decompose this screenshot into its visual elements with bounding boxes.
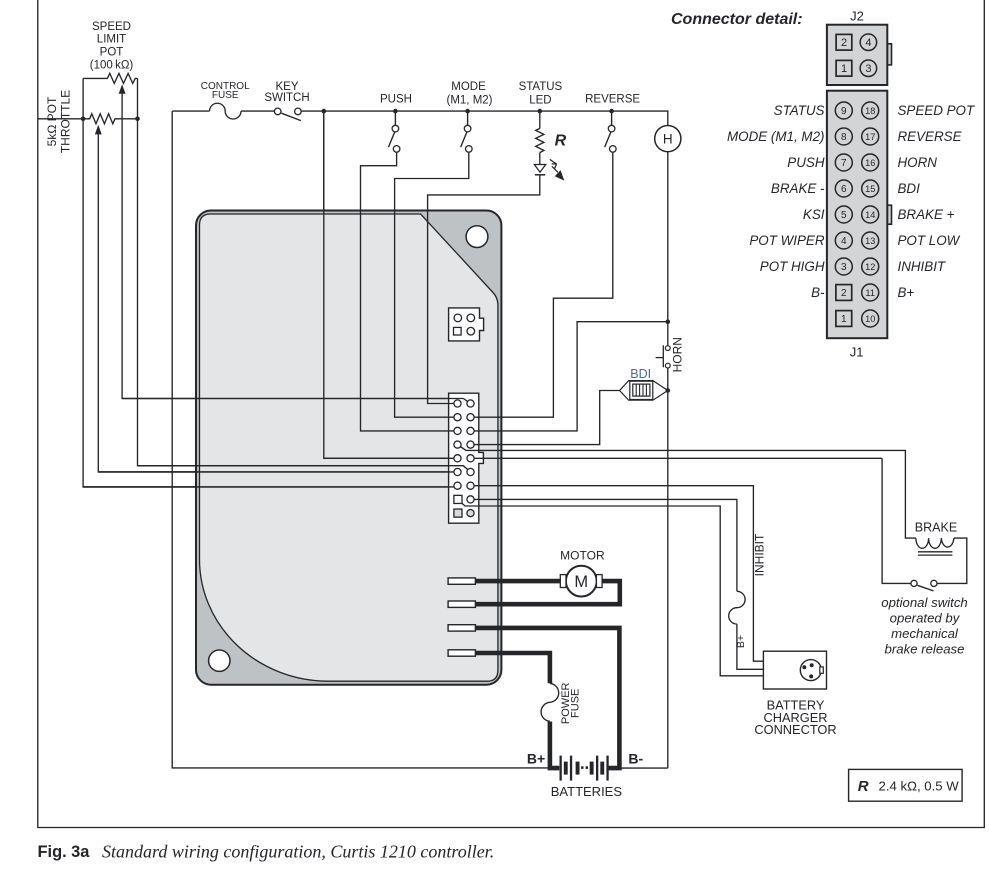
- controller body (light face with beveled corners): [200, 214, 498, 681]
- resistor SPEED LIMIT POT 100k: [83, 73, 137, 83]
- header pin 15: [467, 441, 474, 448]
- LED status (diode): [534, 165, 545, 175]
- svg-text:MODE: MODE: [451, 81, 486, 93]
- wire POT HIGH over body: [83, 486, 457, 488]
- wire REVERSE (switch to pin 17): [471, 152, 613, 417]
- svg-text:mechanical: mechanical: [891, 626, 959, 641]
- switch KEY SWITCH: [274, 108, 301, 121]
- J1 pin 15: [862, 180, 879, 197]
- J1 pin 12: [862, 258, 879, 275]
- svg-text:POT HIGH: POT HIGH: [760, 259, 825, 274]
- svg-text:THROTTLE: THROTTLE: [59, 90, 73, 153]
- J1 pin 9: [835, 102, 852, 119]
- svg-text:POT LOW: POT LOW: [898, 233, 961, 248]
- node BDI junction: [666, 388, 671, 393]
- svg-text:SPEED POT: SPEED POT: [898, 103, 975, 118]
- svg-text:B-: B-: [628, 751, 643, 767]
- svg-text:INHIBIT: INHIBIT: [753, 533, 767, 576]
- svg-text:CONNECTOR: CONNECTOR: [754, 722, 836, 737]
- header pin 10: [467, 509, 474, 516]
- svg-text:16: 16: [865, 158, 875, 168]
- svg-text:REVERSE: REVERSE: [585, 94, 640, 106]
- svg-text:8: 8: [841, 132, 847, 143]
- wire BDI (pin 15 to BDI): [471, 391, 620, 445]
- header pin 16: [467, 427, 474, 434]
- pin 2 mate: [467, 314, 475, 322]
- header pin 14: [467, 455, 474, 462]
- svg-text:BRAKE +: BRAKE +: [898, 207, 955, 222]
- svg-text:BDI: BDI: [898, 181, 921, 196]
- J2 pin 3: [860, 60, 877, 77]
- header pin 13: [467, 468, 474, 475]
- svg-text:SPEED: SPEED: [92, 21, 131, 33]
- J2 pin 1: [836, 60, 852, 76]
- J1 pin 2 (square): [836, 285, 852, 301]
- wire stub to throttle low rail: [38, 118, 83, 120]
- pushbutton HORN: [656, 345, 671, 368]
- header pin 5: [454, 455, 461, 462]
- legend R value box: [849, 769, 963, 801]
- wire rail to key switch: [241, 110, 274, 112]
- cable B+ to power fuse: [475, 653, 550, 683]
- svg-text:HORN: HORN: [898, 155, 938, 170]
- switch optional brake release: [911, 580, 937, 591]
- switch REVERSE: [605, 111, 616, 152]
- J1 pin 6: [835, 180, 852, 197]
- resistor 5k POT THROTTLE: [83, 114, 137, 124]
- terminal lug B-: [448, 625, 475, 631]
- svg-text:4: 4: [841, 236, 847, 247]
- svg-text:KSI: KSI: [803, 207, 825, 222]
- wire horn vertical upper: [667, 152, 669, 346]
- J2 pin 2: [836, 34, 852, 50]
- J1 pin 14: [862, 206, 879, 223]
- wire KSI (key switch to pin 5): [324, 111, 458, 458]
- node PUSH junction: [393, 109, 398, 114]
- svg-text:3: 3: [841, 262, 847, 273]
- svg-text:BRAKE: BRAKE: [915, 520, 957, 534]
- wire B+ to charger upper part: [471, 499, 737, 591]
- BDI indicator: [620, 381, 668, 401]
- wire top rail segment left: [172, 110, 209, 112]
- J1 pin 4: [835, 232, 852, 249]
- svg-text:5kΩ POT: 5kΩ POT: [45, 96, 59, 146]
- svg-text:operated by: operated by: [890, 611, 961, 626]
- svg-text:2.4 kΩ, 0.5 W: 2.4 kΩ, 0.5 W: [879, 778, 960, 793]
- header pin 4: [454, 468, 461, 475]
- svg-text:INHIBIT: INHIBIT: [898, 259, 946, 274]
- svg-text:3: 3: [865, 63, 871, 75]
- svg-text:PUSH: PUSH: [380, 94, 412, 106]
- svg-text:Fig. 3a: Fig. 3a: [38, 843, 91, 861]
- svg-text:FUSE: FUSE: [212, 90, 239, 101]
- svg-text:1: 1: [841, 63, 847, 75]
- cable B- to battery: [475, 628, 619, 768]
- header pin 11: [467, 496, 474, 503]
- header pin 8: [454, 414, 461, 421]
- header pin 9: [454, 400, 461, 407]
- svg-text:MOTOR: MOTOR: [560, 549, 605, 563]
- J1 pin 16: [862, 154, 879, 171]
- arrow speed pot wiper: [119, 84, 126, 94]
- svg-text:M: M: [574, 573, 588, 591]
- wire INHIBIT (pin 12 to charger): [471, 486, 764, 662]
- wire SPEED POT into pin 18: [122, 399, 470, 404]
- wire brake coil to switch: [937, 538, 967, 583]
- svg-text:4: 4: [865, 37, 871, 49]
- node MODE junction: [465, 109, 470, 114]
- wire MODE (switch to pin 8): [395, 152, 469, 417]
- battery charger connector box: [763, 651, 826, 689]
- arrow throttle wiper: [95, 125, 102, 135]
- header pin 6: [454, 441, 461, 448]
- svg-text:J1: J1: [850, 345, 864, 360]
- terminal lug A2: [448, 578, 475, 584]
- mounting hole top-right: [466, 226, 488, 248]
- svg-text:Connector detail:: Connector detail:: [671, 11, 803, 28]
- node key switch junction: [322, 109, 327, 114]
- wire BRAKE- (pin 6 to brake coil): [458, 445, 916, 538]
- wire POT WIPER over body: [98, 471, 457, 473]
- pin 4 mate: [454, 314, 462, 322]
- J1 pin 7: [835, 154, 852, 171]
- svg-text:7: 7: [841, 158, 847, 169]
- battery BATTERIES: [560, 756, 609, 781]
- fuse in B+ charger lead: [729, 591, 745, 624]
- svg-text:optional switch: optional switch: [881, 595, 968, 610]
- header pin 1 (square, unused): [454, 509, 462, 517]
- motor M: [566, 566, 597, 597]
- svg-text:B-: B-: [811, 285, 825, 300]
- brake core bars: [918, 552, 952, 555]
- node REVERSE junction: [609, 109, 614, 114]
- J1 pin 1 (square): [836, 311, 852, 327]
- fuse CONTROL FUSE: [210, 103, 242, 119]
- svg-text:13: 13: [865, 236, 875, 246]
- coil BRAKE: [916, 538, 954, 548]
- svg-text:STATUS: STATUS: [774, 103, 825, 118]
- wire KSI into pin 5: [324, 457, 458, 459]
- header pin 7: [454, 427, 461, 434]
- wire SPEED POT over body: [122, 399, 470, 404]
- pin 3 mate: [467, 327, 475, 335]
- svg-text:9: 9: [841, 106, 847, 117]
- wire POT WIPER (to pin 4): [98, 129, 457, 472]
- connector J2 mate on controller: [449, 308, 484, 341]
- LED emission arrows: [550, 159, 565, 180]
- svg-text:17: 17: [865, 132, 875, 142]
- header pin 2 (square): [454, 495, 462, 503]
- svg-text:(100 kΩ): (100 kΩ): [90, 59, 134, 71]
- svg-text:brake release: brake release: [885, 642, 965, 657]
- J1 pin 17: [862, 128, 879, 145]
- svg-text:POT: POT: [100, 47, 124, 59]
- J1 pin 18: [862, 102, 879, 119]
- switch PUSH: [389, 111, 400, 152]
- svg-text:SWITCH: SWITCH: [264, 92, 309, 104]
- resistor R (LED series): [536, 128, 544, 152]
- svg-text:Standard wiring configuration,: Standard wiring configuration, Curtis 12…: [102, 842, 494, 862]
- svg-text:18: 18: [865, 106, 875, 116]
- header pin 18: [467, 400, 474, 407]
- svg-text:J2: J2: [850, 9, 864, 24]
- wire top rail to horn: [301, 111, 668, 125]
- controller outer shell (Curtis 1210): [196, 211, 501, 685]
- svg-text:5: 5: [841, 210, 847, 221]
- wire POT LOW over body: [138, 466, 471, 472]
- wire POT LOW into pin 13: [138, 466, 471, 472]
- wire STATUS (LED to pin 9): [428, 175, 540, 404]
- svg-text:6: 6: [841, 184, 847, 195]
- svg-text:R: R: [858, 778, 869, 795]
- cable controller to motor: [475, 579, 561, 584]
- svg-text:FUSE: FUSE: [570, 689, 582, 718]
- J1 pin 10: [862, 310, 879, 327]
- node horn wire junction: [666, 319, 671, 324]
- wire POT LOW (to pin 13): [138, 78, 471, 472]
- svg-text:14: 14: [865, 210, 875, 220]
- horn H: [655, 126, 681, 152]
- wire horn to B-: [619, 767, 667, 769]
- svg-text:2: 2: [841, 37, 847, 49]
- J1 pin 5: [835, 206, 852, 223]
- wire POT HIGH into pin 3: [83, 486, 457, 488]
- wire POT WIPER into pin 4: [98, 471, 457, 473]
- svg-text:15: 15: [865, 184, 875, 194]
- svg-text:H: H: [663, 131, 673, 146]
- wire BRAKE+ (pin 14 to brake switch): [471, 457, 883, 459]
- wire LED feed: [539, 111, 541, 128]
- node STATUS LED junction: [538, 109, 543, 114]
- node throttle right junction: [135, 117, 140, 122]
- svg-text:KEY: KEY: [275, 81, 298, 93]
- svg-text:POT WIPER: POT WIPER: [749, 233, 824, 248]
- wire R to LED: [539, 153, 541, 165]
- svg-text:B+: B+: [527, 751, 545, 767]
- J1 pin 11: [862, 284, 879, 301]
- charger pins: [802, 665, 806, 669]
- svg-text:HORN: HORN: [671, 337, 685, 372]
- node throttle left junction: [81, 117, 86, 122]
- cable power fuse to battery: [550, 722, 559, 769]
- fuse POWER FUSE: [541, 683, 559, 721]
- connector J1 detail: [827, 91, 892, 339]
- header pin 3: [454, 482, 461, 489]
- terminal lug B+: [448, 650, 475, 656]
- svg-text:12: 12: [865, 262, 875, 272]
- J1 pin 3: [835, 258, 852, 275]
- J2 pin 4: [860, 34, 877, 51]
- wire KSI over body: [324, 111, 458, 458]
- svg-text:BDI: BDI: [630, 367, 651, 381]
- svg-text:MODE (M1, M2): MODE (M1, M2): [727, 129, 824, 144]
- pin 1 mate (square): [454, 327, 462, 335]
- wire PUSH (switch to pin 7): [361, 152, 458, 431]
- header pin 17: [467, 414, 474, 421]
- switch MODE (M1, M2): [461, 111, 472, 152]
- svg-text:REVERSE: REVERSE: [898, 129, 963, 144]
- wire brake switch to BRAKE+: [882, 458, 911, 583]
- svg-text:B+: B+: [735, 635, 747, 648]
- connector J1 mate (2x9 header) on controller: [449, 393, 484, 523]
- svg-text:BATTERIES: BATTERIES: [551, 784, 623, 799]
- svg-text:LED: LED: [529, 94, 551, 106]
- wire SPEED POT (wiper to pin 18): [122, 88, 470, 404]
- svg-text:1: 1: [841, 314, 847, 325]
- wire B+ return loop (left side): [172, 111, 550, 768]
- svg-text:R: R: [555, 133, 567, 150]
- mounting hole bottom-left: [209, 650, 230, 671]
- J1 pin 8: [835, 128, 852, 145]
- wire horn vertical lower: [667, 368, 669, 768]
- wire B- (pin 2 to charger): [458, 499, 764, 675]
- svg-text:BRAKE -: BRAKE -: [771, 181, 825, 196]
- svg-text:11: 11: [865, 288, 875, 298]
- svg-text:B+: B+: [898, 285, 915, 300]
- cable motor return: [475, 581, 619, 604]
- svg-text:LIMIT: LIMIT: [97, 34, 126, 46]
- svg-text:10: 10: [865, 314, 875, 324]
- charger socket circle: [800, 660, 821, 681]
- connector J2 detail: [827, 25, 892, 85]
- svg-text:STATUS: STATUS: [519, 81, 563, 93]
- svg-text:(M1, M2): (M1, M2): [447, 94, 493, 106]
- header pin 12: [467, 482, 474, 489]
- terminal lug M-: [448, 601, 475, 607]
- svg-text:2: 2: [841, 288, 847, 299]
- J1 pin 13: [862, 232, 879, 249]
- svg-text:PUSH: PUSH: [787, 155, 825, 170]
- wire HORN (to pin 16): [471, 322, 668, 431]
- wire B+ to charger lower part: [737, 624, 764, 669]
- wire POT HIGH (throttle low end to pin 3): [83, 78, 457, 487]
